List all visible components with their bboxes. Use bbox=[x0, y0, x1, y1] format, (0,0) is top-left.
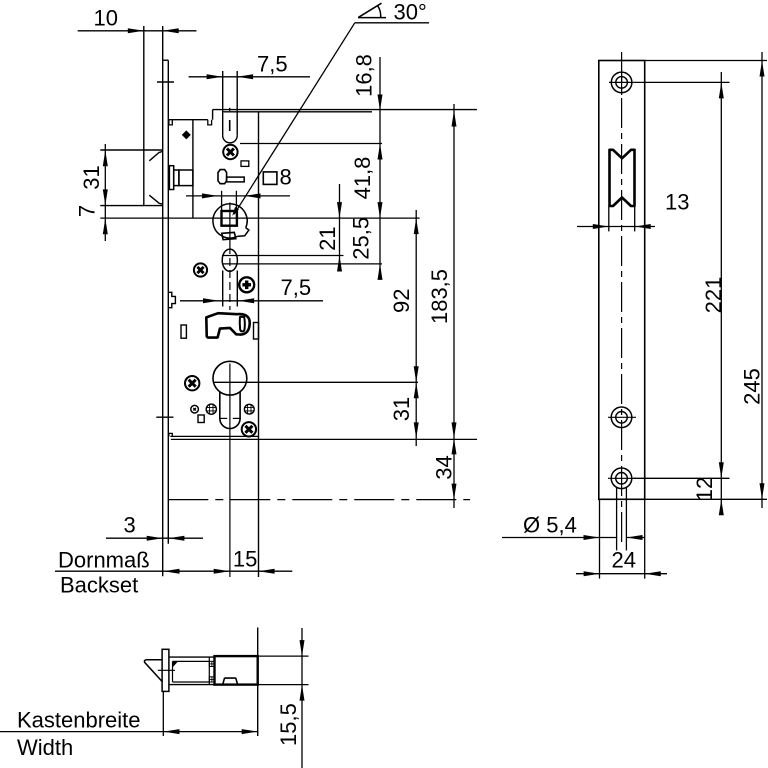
stepped tab on faceplate bbox=[168, 292, 175, 307]
case inner left wall bbox=[172, 661, 174, 682]
vertical centre line (axis) bbox=[229, 203, 231, 578]
svg-text:31: 31 bbox=[79, 165, 104, 189]
faceplate right edge bbox=[167, 60, 169, 544]
case top edge / extension to right chain bbox=[213, 109, 477, 111]
svg-text:7,5: 7,5 bbox=[257, 52, 288, 77]
dash-dot reference line 34 bottom bbox=[168, 499, 470, 501]
svg-text:221: 221 bbox=[701, 277, 726, 314]
dimension square 8 bbox=[186, 165, 292, 212]
case top second line bbox=[223, 111, 372, 113]
latch front face / extension line bbox=[143, 26, 145, 206]
svg-text:15: 15 bbox=[233, 547, 257, 572]
svg-text:Backset: Backset bbox=[60, 573, 138, 598]
case bottom edge upper bbox=[170, 435, 258, 437]
small square opening bbox=[241, 161, 249, 167]
deadlatch pin bbox=[169, 166, 193, 190]
svg-text:Ø 5,4: Ø 5,4 bbox=[523, 513, 577, 538]
case bottom edge thin bbox=[169, 684, 215, 686]
middle screw hole bbox=[608, 407, 636, 428]
dimension diameter 5,4 bbox=[502, 513, 645, 541]
extension line 25,5 bottom bbox=[222, 263, 382, 265]
dimension 24 bbox=[576, 548, 667, 577]
bottom screw extension bbox=[634, 477, 730, 479]
leader line 30 degrees bbox=[230, 0, 429, 217]
plate bottom extension bbox=[645, 498, 767, 500]
faceplate break tick upper bbox=[157, 81, 174, 83]
follower nut bbox=[213, 204, 249, 240]
screw S5 bbox=[242, 422, 256, 436]
tapped hole left bbox=[206, 404, 216, 414]
svg-text:Dornmaß: Dornmaß bbox=[58, 547, 150, 572]
small screw bbox=[191, 405, 199, 413]
dimension line 183,5 / 34 bbox=[427, 104, 457, 508]
dimension 15,5 bbox=[276, 628, 304, 768]
svg-text:92: 92 bbox=[389, 289, 414, 313]
svg-text:31: 31 bbox=[389, 397, 414, 421]
case top edge thin bbox=[169, 656, 215, 658]
Dornmass/Backset baseline bbox=[55, 547, 292, 598]
small tab in rear box bbox=[223, 678, 238, 684]
right edge extension vertical bbox=[257, 628, 259, 737]
svg-text:41,8: 41,8 bbox=[350, 157, 375, 200]
latch guide slot bbox=[223, 71, 238, 143]
change lever bbox=[206, 313, 249, 337]
dimension line 92 / 31 bbox=[389, 210, 419, 446]
plate top extension bbox=[645, 60, 767, 62]
chain dimension line 16,8 / 41,8 / 25,5 bbox=[348, 54, 382, 280]
diamond mark bbox=[182, 130, 191, 139]
case bottom notch bbox=[169, 433, 172, 436]
svg-text:183,5: 183,5 bbox=[427, 269, 452, 324]
svg-text:25,5: 25,5 bbox=[348, 217, 373, 260]
latch bolt side view bbox=[100, 150, 162, 206]
plate outline bbox=[599, 61, 645, 500]
svg-text:24: 24 bbox=[612, 548, 636, 573]
screw S3 bbox=[239, 277, 254, 292]
small rect below small screw bbox=[198, 415, 204, 423]
oval slot bbox=[222, 249, 237, 271]
case inner vertical near faceplate bbox=[192, 120, 194, 218]
case bottom edge / extension bbox=[171, 438, 477, 440]
15,5 extension lines bbox=[258, 656, 309, 685]
corner wedge bbox=[173, 661, 179, 667]
tapped hole right bbox=[244, 404, 254, 414]
plate edge extensions down bbox=[600, 499, 645, 578]
top screw extension bbox=[634, 81, 729, 83]
svg-text:21: 21 bbox=[315, 226, 340, 250]
latch centre tick bbox=[158, 669, 175, 671]
dimension 31 and 7 (left) bbox=[74, 144, 108, 241]
bolt with head bbox=[218, 170, 244, 184]
svg-text:8: 8 bbox=[280, 165, 292, 190]
case inner top line bbox=[173, 660, 210, 662]
dimension 21 bbox=[315, 184, 342, 272]
dimension 13 bbox=[577, 190, 689, 232]
long horizontal centre line through nut bbox=[100, 217, 419, 219]
dimension 7,5 (top) bbox=[189, 52, 310, 80]
rear case box bold bbox=[215, 656, 258, 685]
internal vertical line bbox=[258, 112, 260, 577]
faceplate top cap bbox=[163, 59, 169, 61]
screw S2 bbox=[194, 263, 207, 276]
screw S4 bbox=[185, 376, 199, 390]
oval slot lower walls bbox=[223, 271, 238, 307]
extension line 21 bottom bbox=[222, 255, 344, 257]
svg-text:13: 13 bbox=[665, 190, 689, 215]
extension line 41,8 boundary bbox=[240, 143, 382, 145]
case top edge lower part with notches bbox=[168, 120, 211, 125]
plate centre line bbox=[621, 52, 623, 544]
Kastenbreite/Width baseline bbox=[0, 708, 258, 761]
faceplate extension down bbox=[162, 691, 164, 736]
svg-text:Width: Width bbox=[17, 735, 73, 760]
small rect on internal vertical bbox=[254, 323, 259, 340]
faceplate left edge bbox=[162, 26, 164, 576]
case top step bbox=[212, 110, 214, 120]
divider lines bbox=[209, 657, 214, 685]
svg-text:16,8: 16,8 bbox=[351, 54, 376, 97]
svg-text:10: 10 bbox=[94, 6, 118, 31]
svg-text:30°: 30° bbox=[394, 0, 427, 25]
svg-text:34: 34 bbox=[431, 455, 456, 479]
dimension 245 bbox=[739, 52, 764, 508]
cylinder centre extension line bbox=[213, 381, 418, 383]
bottom screw hole bbox=[608, 468, 636, 489]
dimension 3 (faceplate thickness) bbox=[106, 513, 203, 541]
euro profile cylinder hole bbox=[213, 361, 247, 428]
svg-text:15,5: 15,5 bbox=[276, 703, 301, 746]
svg-text:245: 245 bbox=[739, 368, 764, 405]
svg-text:7: 7 bbox=[74, 205, 99, 217]
svg-text:Kastenbreite: Kastenbreite bbox=[17, 708, 141, 733]
dimension 7,5 (lower) bbox=[180, 275, 323, 303]
hole diameter extensions bbox=[617, 488, 627, 550]
dimension 221 / 12 bbox=[692, 72, 726, 515]
svg-text:7,5: 7,5 bbox=[281, 275, 312, 300]
screw S1 bbox=[223, 145, 237, 159]
top screw hole bbox=[609, 70, 634, 95]
case inner bottom line bbox=[173, 681, 210, 683]
latch bevel top view bbox=[144, 660, 162, 682]
svg-text:3: 3 bbox=[124, 513, 136, 538]
faceplate bar bbox=[162, 649, 169, 691]
latch opening bbox=[610, 150, 635, 206]
dimension 10 (latch protrusion) bbox=[78, 6, 197, 34]
small rect left of lever bbox=[181, 325, 186, 338]
svg-text:12: 12 bbox=[692, 477, 717, 501]
faceplate break tick lower bbox=[156, 416, 173, 418]
